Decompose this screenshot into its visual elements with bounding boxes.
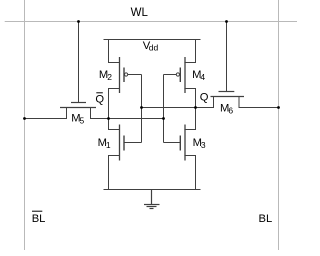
wire M6 left lead to node Q [196,97,214,108]
junction right cross / Qbar line [162,117,165,120]
junction BL/M6 [277,106,280,109]
svg-text:M6: M6 [220,103,233,116]
svg-text:M3: M3 [193,137,206,150]
svg-text:M1: M1 [98,137,111,150]
svg-text:M4: M4 [192,69,205,82]
transistor M4 (PMOS) [176,57,185,93]
wire M4 drain to node Q [184,89,195,108]
word line WL [5,21,297,23]
wire M5 right lead to node Qbar [91,108,109,119]
Vdd rail [104,39,201,41]
wire M4 source from Vdd [184,40,195,63]
svg-text:BL: BL [259,213,273,225]
wire right cross (node Qbar net vertical) [163,75,165,143]
wire M2 source from Vdd [109,40,120,63]
wire M3 gate to right cross wire [164,142,181,144]
svg-text:Q: Q [200,91,209,103]
transistor M1 (NMOS) [120,125,125,161]
junction left cross / Q line [140,106,143,109]
svg-text:M5: M5 [71,112,84,125]
wire left cross (node Q net vertical) [141,75,143,143]
transistor M3 (NMOS) [180,125,185,161]
wire M1 drain from node Qbar [109,119,120,130]
transistor M5 (access NMOS) [60,22,96,108]
wire M1 gate to left cross wire [124,142,142,144]
svg-text:WL: WL [131,7,149,19]
junction WL/M5 gate [77,20,80,23]
svg-text:M2: M2 [99,69,112,82]
svg-text:Vdd: Vdd [143,40,159,52]
transistor M6 (access NMOS) [211,22,245,97]
wire M3 drain from node Q [184,108,195,130]
wire node Q horizontal [142,107,196,109]
ground rail [104,189,201,191]
bit line BLbar [24,0,26,250]
wire node Qbar horizontal [91,118,164,120]
svg-text:Q: Q [95,93,104,105]
wire M4 gate to right cross wire [164,74,177,76]
ground [144,190,160,209]
bit line BL [278,0,280,250]
wire M6 right lead to BL [239,97,279,108]
wire M2 gate to left cross wire [128,74,142,76]
node Q junction [194,106,197,109]
junction WL/M6 gate [225,20,228,23]
transistor M2 (PMOS) [120,57,128,93]
wire M5 left lead to BLbar [25,108,67,119]
node Qbar junction [107,117,110,120]
junction BLbar/M5 [23,117,26,120]
wire M1 source to ground rail [109,156,120,190]
wire M3 source to ground rail [184,156,195,190]
svg-text:BL: BL [32,213,46,225]
wire M2 drain to node Qbar [109,89,120,119]
